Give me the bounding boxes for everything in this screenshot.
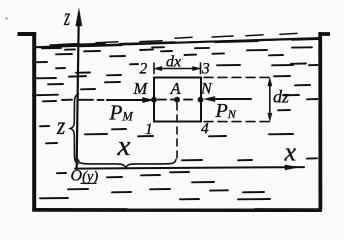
svg-text:1: 1 bbox=[145, 121, 153, 138]
svg-text:x: x bbox=[284, 138, 297, 167]
dx right arrowhead bbox=[193, 66, 201, 70]
tank right rim lip bbox=[319, 32, 331, 36]
underline below (y) bbox=[81, 182, 96, 184]
tank left rim lip bbox=[18, 32, 37, 36]
water surface overlap strokes bbox=[50, 39, 318, 47]
svg-text:3: 3 bbox=[201, 61, 210, 78]
dash left of z-axis on M line bbox=[62, 99, 72, 101]
water dash strokes bbox=[33, 47, 318, 199]
pressure arrow P_M shaft bbox=[107, 99, 146, 101]
dashed line z-axis to M bbox=[79, 99, 93, 101]
dz dimension line bbox=[269, 82, 271, 117]
dashed extension line from corner 4 to dz bbox=[204, 121, 272, 123]
tick crossing z axis bbox=[69, 75, 86, 78]
svg-text:z: z bbox=[63, 3, 70, 31]
scan speck bbox=[5, 17, 7, 19]
svg-text:dx: dx bbox=[166, 54, 181, 71]
svg-text:4: 4 bbox=[201, 121, 209, 138]
dx extension tick over corner 3 bbox=[200, 63, 202, 74]
z axis arrowhead bbox=[76, 9, 82, 27]
pressure arrow P_N head bbox=[204, 96, 215, 101]
short dash before P_M arrow bbox=[98, 99, 104, 101]
node N dot bbox=[198, 97, 204, 103]
pressure arrow P_M head bbox=[143, 97, 154, 102]
svg-text:x: x bbox=[117, 130, 131, 162]
dx extension tick over corner 2 bbox=[153, 63, 155, 74]
dx left arrowhead bbox=[154, 66, 162, 70]
svg-text:N: N bbox=[200, 81, 213, 98]
dz bottom arrowhead bbox=[268, 113, 272, 122]
svg-text:A: A bbox=[170, 79, 182, 98]
z dimension brace bbox=[70, 94, 78, 163]
node A dot bbox=[174, 97, 180, 103]
x axis line bbox=[75, 167, 304, 169]
tank bottom wall bbox=[32, 208, 322, 212]
dashed vertical line below A bbox=[176, 103, 178, 163]
svg-text:dz: dz bbox=[273, 87, 289, 107]
element square 1-2-3-4 bbox=[154, 78, 201, 122]
water surface main line bbox=[36, 38, 318, 47]
svg-text:z: z bbox=[56, 112, 65, 140]
dashed line M to N through A bbox=[158, 99, 197, 101]
dashed extension line from corner 3 to dz bbox=[204, 76, 272, 78]
svg-text:O(y): O(y) bbox=[71, 168, 99, 186]
dx dimension line bbox=[157, 68, 197, 70]
x axis arrowhead bbox=[285, 165, 299, 170]
z axis line bbox=[77, 14, 79, 169]
tank left wall bbox=[32, 32, 36, 210]
svg-text:M: M bbox=[133, 79, 149, 98]
x dimension brace bbox=[78, 160, 176, 168]
pressure arrow P_N shaft bbox=[211, 98, 251, 100]
tank right wall bbox=[318, 32, 322, 209]
dz top arrowhead bbox=[268, 78, 272, 87]
water surface upper hatch strokes bbox=[58, 33, 297, 44]
svg-text:2: 2 bbox=[140, 61, 148, 78]
node M dot bbox=[151, 97, 157, 103]
